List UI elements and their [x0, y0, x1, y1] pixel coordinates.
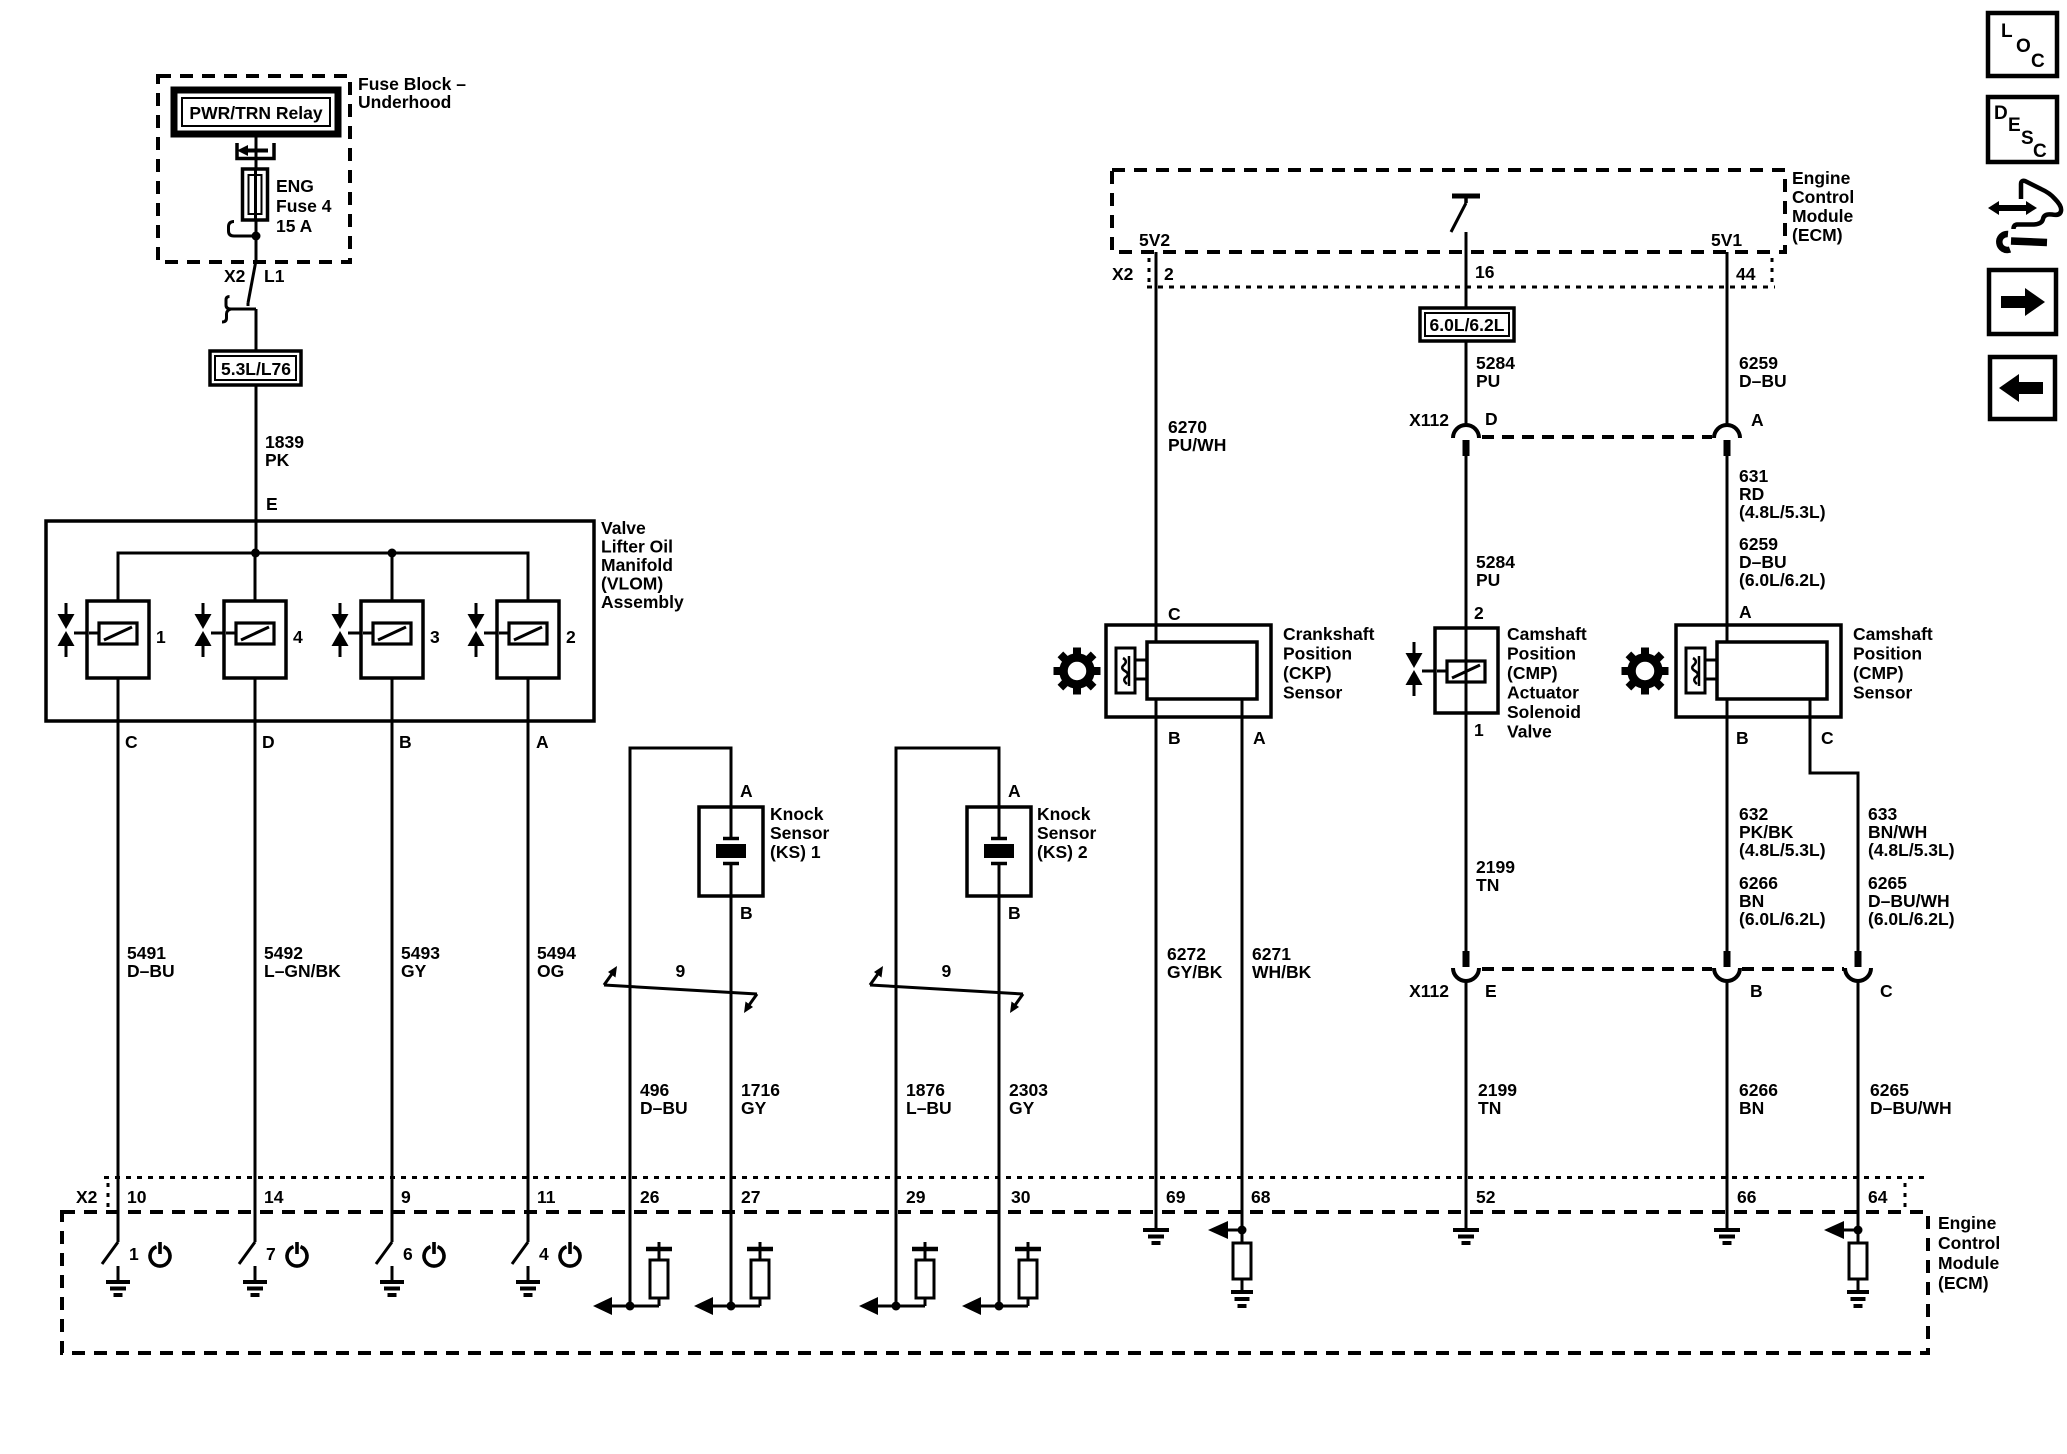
svg-text:(4.8L/5.3L): (4.8L/5.3L)	[1739, 502, 1826, 522]
VLOM solenoid valve 2	[468, 601, 577, 678]
svg-text:(CMP): (CMP)	[1853, 663, 1904, 683]
svg-text:L–GN/BK: L–GN/BK	[264, 961, 341, 981]
svg-text:D–BU/WH: D–BU/WH	[1870, 1098, 1952, 1118]
shield symbol circuit 9 KS1	[604, 961, 757, 1013]
svg-text:PU: PU	[1476, 371, 1500, 391]
knock sensor (KS) 2 circuit loop wires	[895, 748, 1001, 1212]
svg-text:30: 30	[1011, 1187, 1031, 1207]
svg-text:Knock: Knock	[1037, 804, 1091, 824]
wire label 5494 OG	[537, 943, 576, 981]
svg-text:Knock: Knock	[770, 804, 824, 824]
camshaft position actuator solenoid valve	[1406, 628, 1499, 713]
svg-text:2199: 2199	[1476, 857, 1515, 877]
svg-text:4: 4	[539, 1244, 549, 1264]
svg-text:6265: 6265	[1868, 873, 1907, 893]
label 6266 BN lower	[1739, 1080, 1778, 1118]
svg-text:Module: Module	[1792, 206, 1854, 226]
engine control module top dashed box	[1112, 170, 1785, 252]
svg-text:Lifter Oil: Lifter Oil	[601, 537, 673, 557]
wire solenoid 2 to pin A	[527, 678, 530, 1212]
svg-text:16: 16	[1475, 262, 1495, 282]
junction node bus B	[388, 549, 397, 558]
knock sensor (KS) 1 circuit loop wires	[629, 748, 733, 1212]
svg-text:Position: Position	[1853, 644, 1922, 664]
VLOM internal feed bus	[118, 521, 528, 601]
svg-text:BN: BN	[1739, 891, 1764, 911]
wire label 1876 L-BU	[906, 1080, 952, 1118]
svg-text:C: C	[125, 732, 138, 752]
svg-text:Control: Control	[1938, 1233, 2000, 1253]
svg-text:1: 1	[129, 1244, 139, 1264]
label X112 D	[1409, 409, 1498, 430]
termination resistor pin 26	[593, 1212, 672, 1315]
wire solenoid 4 to pin D	[254, 678, 257, 1212]
svg-text:5284: 5284	[1476, 552, 1515, 572]
svg-text:15 A: 15 A	[276, 216, 313, 236]
svg-text:Manifold: Manifold	[601, 555, 673, 575]
svg-text:Position: Position	[1507, 644, 1576, 664]
pull-up resistor and ground pin 64	[1824, 1212, 1869, 1306]
label 631 RD 4.8L/5.3L	[1739, 466, 1826, 522]
svg-text:64: 64	[1868, 1187, 1888, 1207]
CKP pin labels B A	[1168, 728, 1266, 748]
svg-text:D: D	[1485, 409, 1498, 429]
label 6265 D-BU/WH 6.0L/6.2L	[1868, 873, 1955, 929]
svg-text:C: C	[2033, 141, 2047, 162]
svg-text:B: B	[1168, 728, 1181, 748]
fuse label	[276, 176, 332, 236]
svg-text:1876: 1876	[906, 1080, 945, 1100]
VLOM pin labels C D B A	[125, 732, 549, 752]
svg-text:GY: GY	[401, 961, 427, 981]
6.0L/6.2L box	[1420, 308, 1514, 341]
wire 6266 BN to ECM 66	[1726, 982, 1729, 1212]
label 632 PK/BK 4.8L/5.3L	[1739, 804, 1826, 860]
wire solenoid 3 to pin B	[391, 678, 394, 1212]
svg-text:TN: TN	[1478, 1098, 1501, 1118]
svg-text:6: 6	[403, 1244, 413, 1264]
svg-text:631: 631	[1739, 466, 1768, 486]
svg-text:11: 11	[537, 1187, 556, 1207]
svg-text:D–BU/WH: D–BU/WH	[1868, 891, 1950, 911]
VLOM solenoid valve 4	[195, 601, 304, 678]
svg-text:(4.8L/5.3L): (4.8L/5.3L)	[1739, 840, 1826, 860]
knock sensor KS2 pin labels	[1008, 781, 1021, 923]
component location wrench icon	[1988, 181, 2061, 250]
connector X112 terminal A	[1714, 425, 1740, 456]
svg-text:Sensor: Sensor	[770, 823, 830, 843]
terminal hook in fuse block	[229, 222, 254, 237]
ECM low-side driver switch pin 1	[102, 1212, 170, 1295]
ground pin 66	[1714, 1212, 1740, 1243]
wire relay to fuse	[255, 134, 258, 169]
svg-text:7: 7	[266, 1244, 276, 1264]
svg-text:C: C	[1821, 728, 1834, 748]
label 5284 PU lower	[1476, 552, 1515, 590]
svg-text:(6.0L/6.2L): (6.0L/6.2L)	[1739, 570, 1826, 590]
wire fuse to connector X2	[255, 220, 258, 263]
svg-text:Position: Position	[1283, 644, 1352, 664]
svg-text:L1: L1	[264, 266, 285, 286]
junction node below fuse	[252, 232, 261, 241]
svg-text:D–BU: D–BU	[1739, 552, 1787, 572]
wire 2199 TN	[1465, 713, 1468, 951]
svg-text:Solenoid: Solenoid	[1507, 702, 1581, 722]
svg-text:3: 3	[430, 627, 440, 647]
LOC navigation button	[1988, 13, 2057, 76]
svg-text:L–BU: L–BU	[906, 1098, 952, 1118]
crankshaft position CKP sensor	[1106, 625, 1271, 717]
svg-text:14: 14	[264, 1187, 284, 1207]
svg-text:(VLOM): (VLOM)	[601, 574, 663, 594]
svg-text:X2: X2	[224, 266, 246, 286]
wire label 496 D-BU	[640, 1080, 688, 1118]
svg-text:GY: GY	[741, 1098, 767, 1118]
svg-text:Valve: Valve	[601, 518, 646, 538]
camshaft position CMP sensor	[1676, 625, 1841, 717]
svg-text:C: C	[1880, 981, 1893, 1001]
wire to 5.3L/L76	[255, 309, 258, 351]
svg-text:Fuse 4: Fuse 4	[276, 196, 332, 216]
svg-text:633: 633	[1868, 804, 1897, 824]
label 2199 TN lower	[1478, 1080, 1517, 1118]
fuse block label	[358, 74, 466, 112]
svg-text:S: S	[2021, 128, 2034, 149]
svg-text:E: E	[2008, 115, 2021, 136]
svg-text:6272: 6272	[1167, 944, 1206, 964]
svg-text:5.3L/L76: 5.3L/L76	[221, 359, 291, 379]
svg-text:66: 66	[1737, 1187, 1757, 1207]
svg-text:69: 69	[1166, 1187, 1186, 1207]
knock sensor (KS) 1	[699, 807, 763, 896]
wire 6265 D-BU/WH to ECM 64	[1857, 982, 1860, 1212]
label 6259 D-BU upper	[1739, 353, 1787, 391]
svg-text:PU/WH: PU/WH	[1168, 435, 1226, 455]
svg-text:6271: 6271	[1252, 944, 1291, 964]
svg-text:(CKP): (CKP)	[1283, 663, 1332, 683]
svg-text:PWR/TRN Relay: PWR/TRN Relay	[189, 103, 322, 123]
svg-text:B: B	[740, 903, 753, 923]
svg-text:(6.0L/6.2L): (6.0L/6.2L)	[1739, 909, 1826, 929]
wire 633 BN/WH / 6265 D-BU/WH CMP C	[1810, 699, 1858, 951]
fuse ENG Fuse 4 15A	[243, 169, 268, 220]
wire 1839 PK	[255, 385, 258, 521]
wire 2199 TN to ECM 52	[1465, 982, 1468, 1212]
svg-text:Engine: Engine	[1938, 1213, 1997, 1233]
svg-text:6259: 6259	[1739, 534, 1778, 554]
svg-text:PU: PU	[1476, 570, 1500, 590]
svg-text:Engine: Engine	[1792, 168, 1851, 188]
svg-text:OG: OG	[537, 961, 564, 981]
label 2199 TN	[1476, 857, 1515, 895]
svg-text:X112: X112	[1409, 410, 1449, 430]
wire 6272 GY/BK CKP B to ECM 69	[1155, 699, 1158, 1212]
svg-text:Assembly: Assembly	[601, 592, 684, 612]
VLOM solenoid valve 1	[58, 601, 167, 678]
svg-text:4: 4	[293, 627, 303, 647]
svg-text:5492: 5492	[264, 943, 303, 963]
connector X112 terminal D	[1453, 425, 1479, 456]
svg-text:68: 68	[1251, 1187, 1271, 1207]
connector X2 terminal L1 symbol	[222, 263, 256, 322]
ECM bottom dashed box	[62, 1212, 1928, 1353]
wire 632 PK/BK / 6266 BN CMP B	[1726, 699, 1729, 951]
back arrow button	[1990, 357, 2055, 419]
wire ECM 16 to 6.0L/6.2L box	[1465, 232, 1468, 308]
svg-text:X2: X2	[1112, 264, 1134, 284]
svg-text:A: A	[740, 781, 753, 801]
svg-text:A: A	[1008, 781, 1021, 801]
5.3L/L76 box	[210, 351, 301, 385]
svg-text:(CMP): (CMP)	[1507, 663, 1558, 683]
svg-text:5V2: 5V2	[1139, 230, 1170, 250]
svg-text:Sensor: Sensor	[1037, 823, 1097, 843]
termination resistor pin 29	[859, 1212, 938, 1315]
label 5284 PU	[1476, 353, 1515, 391]
svg-text:ENG: ENG	[276, 176, 314, 196]
relay output terminal symbol	[237, 143, 274, 159]
svg-text:(ECM): (ECM)	[1792, 225, 1843, 245]
svg-text:D–BU: D–BU	[640, 1098, 688, 1118]
svg-text:(4.8L/5.3L): (4.8L/5.3L)	[1868, 840, 1955, 860]
CMP pin labels B C	[1736, 728, 1834, 748]
label X2 L1	[224, 266, 285, 286]
svg-text:Sensor: Sensor	[1853, 683, 1913, 703]
svg-text:TN: TN	[1476, 875, 1499, 895]
svg-text:26: 26	[640, 1187, 660, 1207]
ECM low-side driver switch pin 4	[512, 1212, 580, 1295]
svg-text:B: B	[399, 732, 412, 752]
svg-text:A: A	[1751, 410, 1764, 430]
wire 6259 D-BU 5V1	[1726, 252, 1729, 426]
svg-text:A: A	[1253, 728, 1266, 748]
svg-text:6.0L/6.2L: 6.0L/6.2L	[1430, 315, 1505, 335]
ECM bottom connector dotted line X2	[104, 1178, 1930, 1208]
svg-text:6266: 6266	[1739, 1080, 1778, 1100]
svg-text:D: D	[262, 732, 275, 752]
svg-text:A: A	[1739, 602, 1752, 622]
svg-text:(6.0L/6.2L): (6.0L/6.2L)	[1868, 909, 1955, 929]
wire label 1716 GY	[741, 1080, 780, 1118]
svg-text:5V1: 5V1	[1711, 230, 1742, 250]
junction node bus D	[251, 549, 260, 558]
svg-text:Underhood: Underhood	[358, 92, 451, 112]
svg-text:6266: 6266	[1739, 873, 1778, 893]
svg-text:D–BU: D–BU	[127, 961, 175, 981]
ECM internal switch driver symbol	[1451, 196, 1480, 232]
svg-text:C: C	[1168, 604, 1181, 624]
VLOM assembly box	[46, 521, 594, 721]
pull-up resistor and ground pin 68	[1208, 1212, 1253, 1306]
connector X112 terminal E	[1453, 951, 1479, 981]
dashed connector line X112 bottom	[1482, 967, 1844, 971]
svg-text:PK: PK	[265, 450, 290, 470]
DESC navigation button	[1988, 97, 2057, 162]
forward arrow button	[1989, 270, 2056, 334]
wire 631 RD / 6259 D-BU to CMP	[1726, 456, 1729, 642]
svg-text:E: E	[266, 494, 278, 514]
ECM top connector dotted line X2	[1147, 258, 1775, 287]
fuse block underhood dashed box	[158, 76, 350, 262]
svg-text:Fuse Block –: Fuse Block –	[358, 74, 466, 94]
svg-text:WH/BK: WH/BK	[1252, 962, 1312, 982]
ground pin 69	[1143, 1212, 1169, 1243]
svg-text:B: B	[1736, 728, 1749, 748]
shield symbol circuit 9 KS2	[870, 961, 1023, 1013]
svg-text:9: 9	[942, 961, 952, 981]
svg-text:L: L	[2001, 21, 2013, 42]
svg-text:2: 2	[1164, 264, 1174, 284]
gear icon CKP	[1064, 658, 1091, 685]
svg-text:Control: Control	[1792, 187, 1854, 207]
svg-text:Actuator: Actuator	[1507, 683, 1579, 703]
label 6271 WH/BK	[1252, 944, 1312, 982]
svg-text:5493: 5493	[401, 943, 440, 963]
termination resistor pin 27	[694, 1212, 773, 1315]
connector terminal B bottom	[1714, 951, 1740, 981]
svg-text:(ECM): (ECM)	[1938, 1273, 1989, 1293]
svg-text:632: 632	[1739, 804, 1768, 824]
label 1839 PK	[265, 432, 304, 470]
svg-text:6265: 6265	[1870, 1080, 1909, 1100]
label 6270 PU/WH	[1168, 417, 1226, 455]
connector terminal C bottom	[1845, 951, 1871, 981]
ECM top connector labels	[1112, 262, 1756, 284]
label X112 E	[1409, 981, 1497, 1001]
svg-text:A: A	[536, 732, 549, 752]
ECM low-side driver switch pin 7	[239, 1212, 307, 1295]
wire 6271 WH/BK CKP A to ECM 68	[1241, 699, 1244, 1212]
label 6259 D-BU 6.0L/6.2L	[1739, 534, 1826, 590]
svg-text:1716: 1716	[741, 1080, 780, 1100]
wire label 5492 L-GN/BK	[264, 943, 341, 981]
svg-text:Crankshaft: Crankshaft	[1283, 624, 1375, 644]
svg-text:O: O	[2016, 36, 2031, 57]
wire 5284 PU lower	[1465, 456, 1468, 628]
svg-text:2303: 2303	[1009, 1080, 1048, 1100]
label 6266 BN 6.0L/6.2L	[1739, 873, 1826, 929]
svg-text:RD: RD	[1739, 484, 1764, 504]
svg-text:Camshaft: Camshaft	[1853, 624, 1933, 644]
svg-text:5494: 5494	[537, 943, 576, 963]
svg-text:2: 2	[566, 627, 576, 647]
ECM bottom pin numbers	[127, 1187, 1888, 1207]
svg-text:PK/BK: PK/BK	[1739, 822, 1794, 842]
svg-text:Valve: Valve	[1507, 722, 1552, 742]
svg-text:Sensor: Sensor	[1283, 683, 1343, 703]
svg-text:2199: 2199	[1478, 1080, 1517, 1100]
svg-text:5491: 5491	[127, 943, 166, 963]
svg-text:(KS) 2: (KS) 2	[1037, 842, 1088, 862]
wire label 5493 GY	[401, 943, 440, 981]
svg-text:GY: GY	[1009, 1098, 1035, 1118]
svg-text:(KS) 1: (KS) 1	[770, 842, 821, 862]
svg-text:52: 52	[1476, 1187, 1496, 1207]
svg-text:1839: 1839	[265, 432, 304, 452]
svg-text:1: 1	[1474, 720, 1484, 740]
svg-text:X112: X112	[1409, 981, 1449, 1001]
wire 5284 PU upper	[1465, 341, 1468, 426]
wire 6270 PU/WH 5V2 to CKP	[1155, 252, 1158, 642]
svg-text:10: 10	[127, 1187, 147, 1207]
dashed connector line X112 top	[1482, 435, 1712, 439]
svg-text:D: D	[1994, 103, 2008, 124]
svg-text:2: 2	[1474, 603, 1484, 623]
svg-text:6270: 6270	[1168, 417, 1207, 437]
PWR/TRN Relay box	[174, 90, 338, 134]
svg-text:X2: X2	[76, 1187, 98, 1207]
wire label 5491 D-BU	[127, 943, 175, 981]
knock sensor (KS) 2	[967, 807, 1031, 896]
svg-text:29: 29	[906, 1187, 926, 1207]
label 6265 D-BU/WH lower	[1870, 1080, 1952, 1118]
label 6272 GY/BK	[1167, 944, 1223, 982]
gear icon CMP	[1632, 658, 1659, 685]
ECM low-side driver switch pin 6	[376, 1212, 444, 1295]
knock sensor KS1 pin labels	[740, 781, 753, 923]
svg-text:Module: Module	[1938, 1253, 2000, 1273]
svg-text:1: 1	[156, 627, 166, 647]
svg-text:B: B	[1750, 981, 1763, 1001]
ground pin 52	[1453, 1212, 1479, 1243]
svg-text:496: 496	[640, 1080, 669, 1100]
svg-text:27: 27	[741, 1187, 760, 1207]
svg-text:9: 9	[401, 1187, 411, 1207]
svg-text:5284: 5284	[1476, 353, 1515, 373]
VLOM solenoid valve 3	[332, 601, 441, 678]
termination resistor pin 30	[962, 1212, 1041, 1315]
svg-text:9: 9	[676, 961, 686, 981]
svg-text:D–BU: D–BU	[1739, 371, 1787, 391]
label 633 BN/WH 4.8L/5.3L	[1868, 804, 1955, 860]
svg-text:44: 44	[1736, 264, 1756, 284]
wire label 2303 GY	[1009, 1080, 1048, 1118]
svg-text:GY/BK: GY/BK	[1167, 962, 1223, 982]
svg-text:E: E	[1485, 981, 1497, 1001]
svg-text:C: C	[2031, 51, 2045, 72]
svg-text:Camshaft: Camshaft	[1507, 624, 1587, 644]
svg-text:6259: 6259	[1739, 353, 1778, 373]
svg-text:BN/WH: BN/WH	[1868, 822, 1927, 842]
svg-text:BN: BN	[1739, 1098, 1764, 1118]
wire solenoid 1 to pin C	[117, 678, 120, 1212]
svg-text:B: B	[1008, 903, 1021, 923]
